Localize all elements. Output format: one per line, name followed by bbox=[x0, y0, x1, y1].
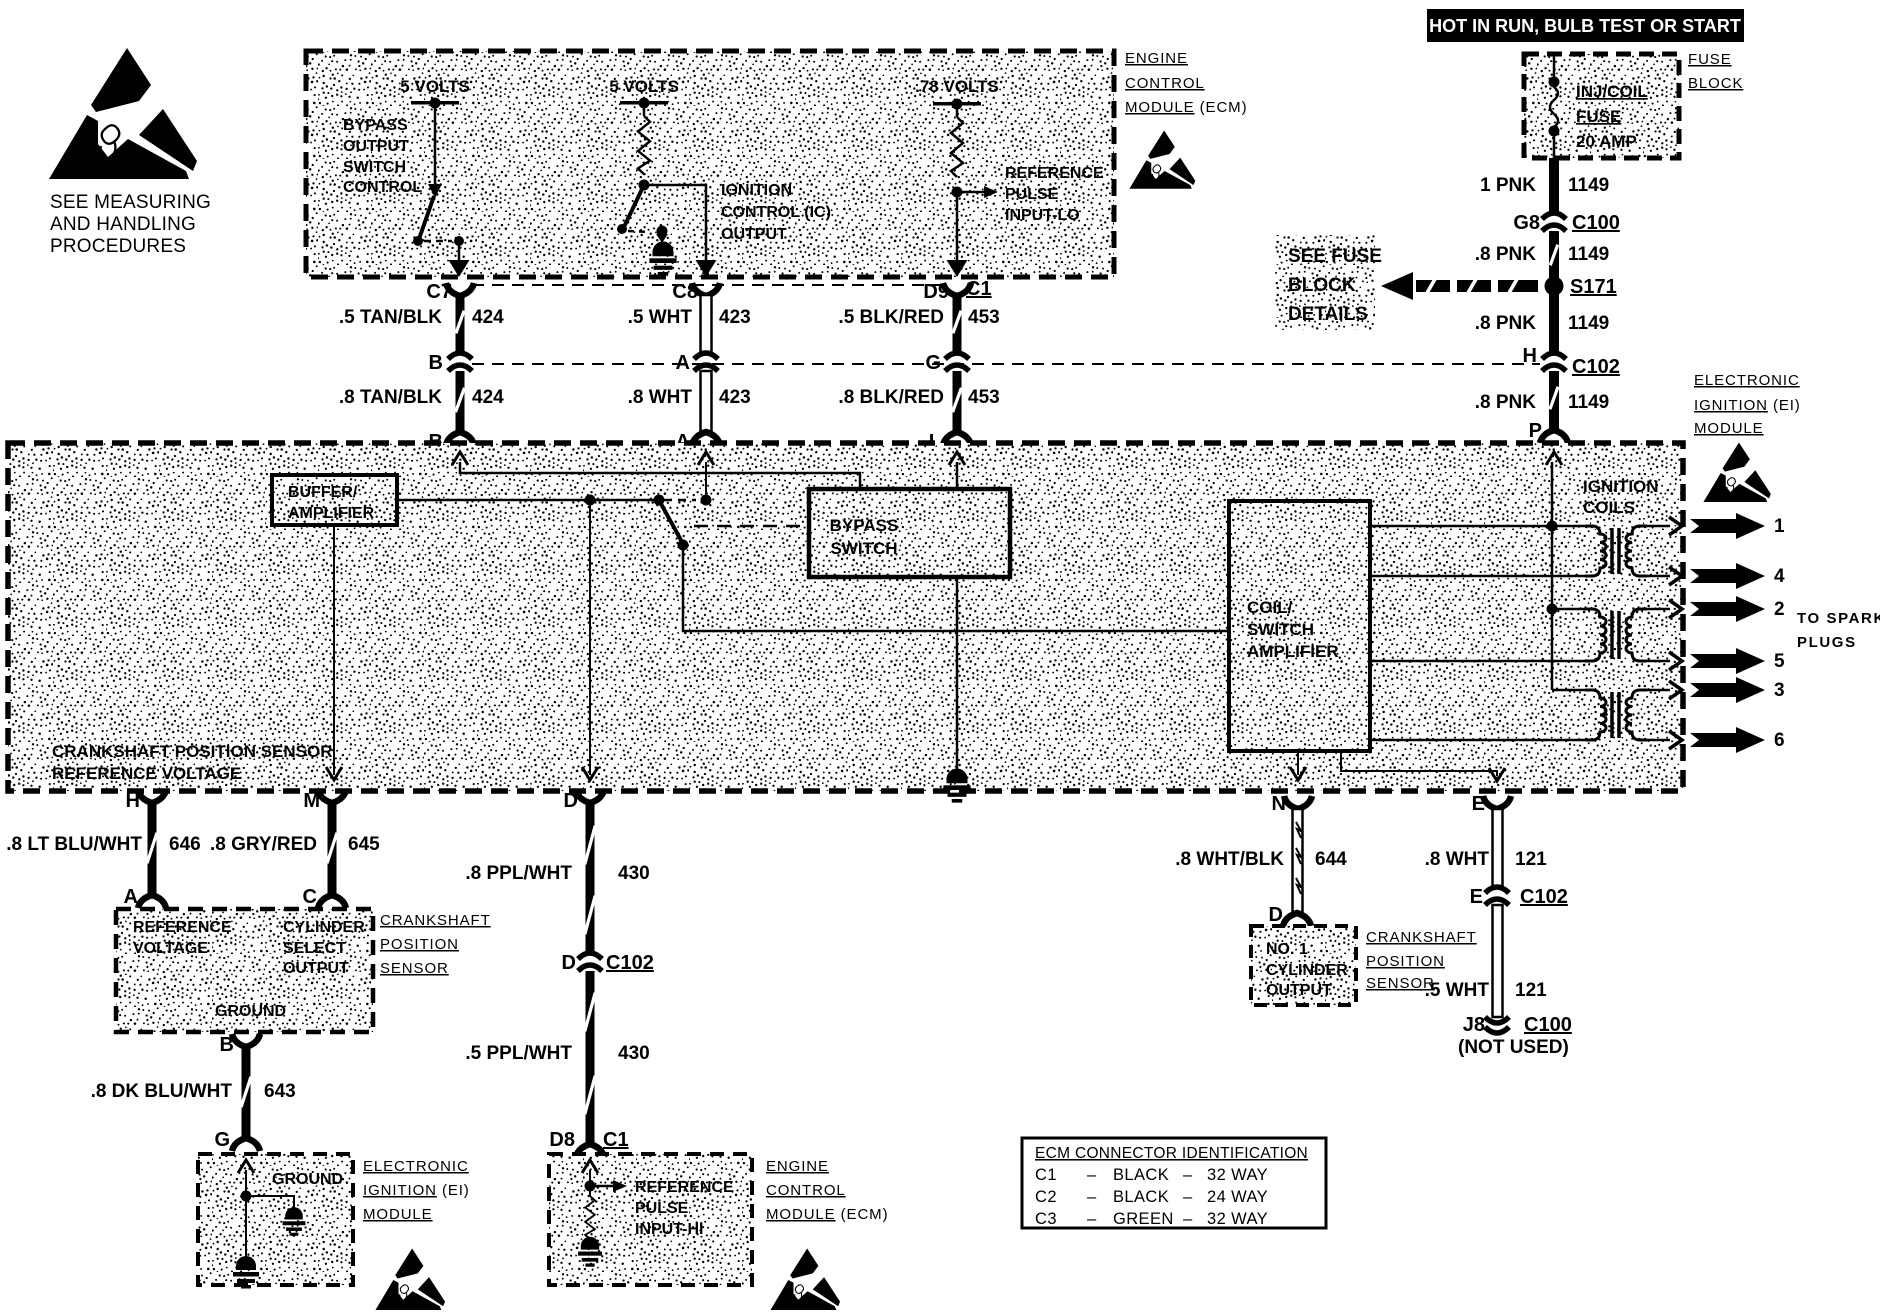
svg-text:C100: C100 bbox=[1524, 1014, 1572, 1036]
connector G C102 bbox=[945, 353, 969, 371]
svg-text:5 VOLTS: 5 VOLTS bbox=[400, 77, 470, 96]
svg-text:BUFFER/: BUFFER/ bbox=[288, 484, 358, 501]
svg-text:.5 WHT: .5 WHT bbox=[1425, 980, 1490, 1001]
svg-text:.8 DK BLU/WHT: .8 DK BLU/WHT bbox=[91, 1081, 233, 1102]
svg-text:G8: G8 bbox=[1513, 212, 1540, 234]
wire 424 .8 TAN/BLK bbox=[454, 371, 466, 431]
ignition control switch blade bbox=[617, 187, 668, 246]
wire 424 .5 TAN/BLK bbox=[454, 295, 465, 352]
wire 121 .5 WHT (white wire) bbox=[1493, 905, 1503, 1017]
resistor (ref pulse divider) bbox=[956, 104, 959, 117]
svg-text:B: B bbox=[220, 1034, 234, 1056]
svg-text:POSITION: POSITION bbox=[380, 936, 459, 953]
svg-text:32 WAY: 32 WAY bbox=[1207, 1210, 1268, 1228]
svg-text:453: 453 bbox=[968, 387, 1000, 408]
svg-text:ENGINE: ENGINE bbox=[766, 1158, 829, 1175]
svg-text:OUTPUT: OUTPUT bbox=[1266, 982, 1332, 999]
svg-text:INPUT-HI: INPUT-HI bbox=[635, 1221, 703, 1238]
svg-text:.5 WHT: .5 WHT bbox=[628, 307, 693, 328]
label ELECTRONIC IGNITION (EI) MODULE bbox=[363, 1158, 470, 1223]
svg-text:2: 2 bbox=[1774, 599, 1785, 620]
terminal J8 C100 (not used) bbox=[1485, 1017, 1509, 1033]
node coil feed junction 1 bbox=[1547, 521, 1558, 532]
svg-text:REFERENCE VOLTAGE: REFERENCE VOLTAGE bbox=[52, 764, 241, 783]
crankshaft position sensor box bbox=[116, 909, 373, 1032]
entry arrow B bbox=[452, 452, 468, 465]
svg-text:VOLTAGE: VOLTAGE bbox=[133, 940, 208, 957]
svg-text:E: E bbox=[1470, 886, 1483, 908]
svg-text:C1: C1 bbox=[966, 278, 992, 300]
wire 645 .8 GRY/RED bbox=[326, 803, 339, 894]
svg-text:CYLINDER: CYLINDER bbox=[1266, 962, 1348, 979]
svg-text:6: 6 bbox=[1774, 730, 1785, 751]
svg-text:BYPASS: BYPASS bbox=[830, 516, 899, 535]
svg-text:423: 423 bbox=[719, 387, 751, 408]
wire 453 .8 BLK/RED bbox=[951, 371, 963, 431]
terminal C (CKP sensor) bbox=[318, 895, 346, 908]
svg-text:PULSE: PULSE bbox=[635, 1200, 689, 1217]
node D junction bbox=[585, 495, 596, 506]
svg-text:453: 453 bbox=[968, 307, 1000, 328]
ECM connector identification table bbox=[1022, 1138, 1326, 1228]
svg-text:SWITCH: SWITCH bbox=[830, 539, 897, 558]
wire: branch to second ground bbox=[246, 1196, 294, 1212]
svg-text:REFERENCE: REFERENCE bbox=[1005, 165, 1104, 182]
note text bbox=[50, 192, 211, 257]
label FUSE BLOCK bbox=[1688, 51, 1743, 92]
node 5 VOLTS (bypass circuit) bbox=[400, 77, 470, 109]
no.1 cylinder output box bbox=[1251, 926, 1356, 1005]
connector face line C1 (ECM) bbox=[472, 284, 952, 286]
svg-text:–: – bbox=[1087, 1210, 1097, 1228]
svg-text:ELECTRONIC: ELECTRONIC bbox=[363, 1158, 469, 1175]
svg-text:BLACK: BLACK bbox=[1113, 1188, 1169, 1206]
arrow to REFERENCE PULSE INPUT-LO bbox=[957, 186, 998, 198]
svg-text:E: E bbox=[1472, 793, 1485, 815]
svg-text:–: – bbox=[1183, 1188, 1193, 1206]
labels inside CKP sensor bbox=[133, 919, 365, 1020]
exit terminals H M D at bottom edge bbox=[138, 790, 166, 803]
svg-text:GROUND: GROUND bbox=[215, 1003, 286, 1020]
svg-text:20 AMP: 20 AMP bbox=[1576, 132, 1637, 151]
label CRANKSHAFT POSITION SENSOR REFERENCE VOLTAGE bbox=[52, 742, 333, 783]
svg-text:P: P bbox=[1529, 420, 1542, 442]
svg-text:1149: 1149 bbox=[1568, 175, 1609, 196]
wire: buffer to M output bbox=[333, 525, 335, 775]
splice S171 bbox=[1545, 277, 1564, 296]
svg-text:REFERENCE: REFERENCE bbox=[635, 1179, 734, 1196]
resistor (ref-hi) bbox=[585, 1196, 595, 1239]
svg-text:.8 WHT: .8 WHT bbox=[628, 387, 693, 408]
label IGNITION CONTROL (IC) OUTPUT bbox=[721, 182, 831, 243]
connector A C102 bbox=[694, 353, 718, 371]
wire 423 .5 WHT (white wire) bbox=[701, 295, 712, 352]
node coil feed junction 2 bbox=[1547, 604, 1558, 615]
wire: G to grounds bbox=[245, 1170, 247, 1262]
svg-text:N: N bbox=[1272, 793, 1286, 815]
node ref-hi junction bbox=[585, 1181, 596, 1192]
banner HOT IN RUN, BULB TEST OR START bbox=[1427, 9, 1744, 42]
svg-text:.8 PNK: .8 PNK bbox=[1475, 313, 1537, 334]
svg-text:C1: C1 bbox=[1035, 1166, 1057, 1184]
svg-text:430: 430 bbox=[618, 1043, 650, 1064]
svg-text:BYPASS: BYPASS bbox=[343, 117, 408, 134]
svg-text:C8: C8 bbox=[672, 281, 698, 303]
svg-text:C102: C102 bbox=[1520, 886, 1568, 908]
svg-text:BLACK: BLACK bbox=[1113, 1166, 1169, 1184]
svg-text:.8 GRY/RED: .8 GRY/RED bbox=[210, 834, 317, 855]
label TO SPARK PLUGS bbox=[1797, 610, 1880, 651]
terminal C7 bbox=[446, 283, 474, 296]
wire 644 .8 WHT/BLK (white w/ black tracer) bbox=[1293, 809, 1303, 912]
svg-text:REFERENCE: REFERENCE bbox=[133, 919, 232, 936]
svg-text:643: 643 bbox=[264, 1081, 296, 1102]
svg-text:121: 121 bbox=[1515, 849, 1547, 870]
svg-text:OUTPUT: OUTPUT bbox=[721, 226, 787, 243]
entry arrow D8 bbox=[582, 1160, 598, 1173]
label ELECTRONIC IGNITION (EI) MODULE bbox=[1694, 372, 1801, 437]
labels REFERENCE PULSE INPUT-HI bbox=[635, 1179, 734, 1238]
ignition coil 2-5 bbox=[1585, 609, 1670, 661]
entry arrow P bbox=[1546, 452, 1562, 465]
svg-text:SWITCH: SWITCH bbox=[343, 159, 406, 176]
ESD symbol: see measuring and handling bbox=[49, 48, 197, 179]
svg-text:CONTROL: CONTROL bbox=[343, 179, 422, 196]
svg-text:.8 PNK: .8 PNK bbox=[1475, 244, 1537, 265]
svg-text:INJ/COIL: INJ/COIL bbox=[1576, 82, 1648, 101]
entry arrow G bbox=[238, 1160, 254, 1173]
ground (EI internal) bbox=[943, 769, 970, 803]
terminal A (EI module) bbox=[692, 432, 720, 445]
wire 453 .5 BLK/RED bbox=[951, 295, 962, 352]
bypass switch box bbox=[809, 489, 1010, 577]
svg-text:.8 WHT: .8 WHT bbox=[1425, 849, 1490, 870]
label ENGINE CONTROL MODULE (ECM) bbox=[1125, 50, 1247, 116]
svg-text:.8 PNK: .8 PNK bbox=[1475, 392, 1537, 413]
svg-text:ECM CONNECTOR IDENTIFICATION: ECM CONNECTOR IDENTIFICATION bbox=[1035, 1145, 1308, 1162]
svg-text:H: H bbox=[126, 790, 140, 812]
svg-text:AMPLIFIER: AMPLIFIER bbox=[1247, 642, 1339, 661]
svg-text:–: – bbox=[1087, 1188, 1097, 1206]
svg-text:423: 423 bbox=[719, 307, 751, 328]
svg-text:C102: C102 bbox=[606, 952, 654, 974]
wire 430 .8 PPL/WHT bbox=[583, 803, 596, 955]
terminal B (CKP sensor bottom) bbox=[232, 1034, 260, 1047]
svg-text:C102: C102 bbox=[1572, 356, 1620, 378]
wire: P down to coil feed bbox=[1551, 462, 1554, 690]
svg-text:(NOT USED): (NOT USED) bbox=[1458, 1037, 1569, 1058]
terminal G (EI module ground) bbox=[232, 1138, 260, 1151]
bypass output switch (ECM) bbox=[413, 184, 464, 246]
resistor (IC pull-up) bbox=[643, 103, 646, 116]
ground (main) bbox=[233, 1256, 259, 1289]
svg-text:GROUND: GROUND bbox=[272, 1171, 343, 1188]
svg-text:CONTROL: CONTROL bbox=[766, 1182, 846, 1199]
connector face line C102 bbox=[472, 363, 1540, 365]
svg-text:.8 LT BLU/WHT: .8 LT BLU/WHT bbox=[6, 834, 142, 855]
terminal D8 / C1 (ECM) bbox=[576, 1144, 604, 1157]
mechanical link to bypass switch bbox=[694, 525, 806, 528]
svg-text:C100: C100 bbox=[1572, 212, 1620, 234]
svg-text:MODULE (ECM): MODULE (ECM) bbox=[1125, 99, 1247, 116]
EI module ground box bbox=[198, 1154, 353, 1285]
terminal D (no.1 cylinder) bbox=[1283, 913, 1311, 926]
fuse block box bbox=[1524, 54, 1679, 158]
wire: blade to coil/switch amplifier bbox=[683, 548, 1229, 631]
svg-text:.5 BLK/RED: .5 BLK/RED bbox=[838, 307, 944, 328]
svg-text:MODULE: MODULE bbox=[363, 1206, 433, 1223]
wire: L to internal ground bbox=[956, 462, 959, 775]
wire 121 .8 WHT (white wire) bbox=[1493, 809, 1503, 886]
svg-text:SEE FUSE: SEE FUSE bbox=[1288, 246, 1382, 267]
wire: D8 to divider bbox=[589, 1170, 591, 1196]
dashed arrow to fuse block details bbox=[1381, 272, 1538, 300]
svg-text:D9: D9 bbox=[923, 281, 949, 303]
label REFERENCE PULSE INPUT-LO bbox=[1005, 165, 1104, 224]
svg-text:C2: C2 bbox=[1035, 1188, 1057, 1206]
svg-text:CONTROL: CONTROL bbox=[1125, 75, 1205, 92]
ESD symbol (bottom left) bbox=[375, 1248, 445, 1310]
svg-text:C: C bbox=[303, 886, 317, 908]
svg-text:.78 VOLTS: .78 VOLTS bbox=[915, 77, 999, 96]
label INJ/COIL FUSE 20 AMP bbox=[1576, 82, 1648, 151]
node 5 VOLTS (IC circuit) bbox=[609, 77, 679, 109]
ground (IC contact) bbox=[649, 242, 676, 276]
wire 1149 .8 PNK (below splice) bbox=[1549, 294, 1559, 353]
svg-text:SELECT: SELECT bbox=[283, 940, 346, 957]
svg-text:PROCEDURES: PROCEDURES bbox=[50, 236, 186, 257]
svg-text:COILS: COILS bbox=[1583, 498, 1635, 517]
ESD symbol (bottom middle) bbox=[770, 1248, 840, 1310]
svg-text:NO. 1: NO. 1 bbox=[1266, 941, 1308, 958]
bypass switch pivot bbox=[654, 495, 665, 506]
svg-text:.8 PPL/WHT: .8 PPL/WHT bbox=[465, 863, 572, 884]
svg-text:3: 3 bbox=[1774, 680, 1785, 701]
coil/switch amplifier box bbox=[1229, 501, 1370, 751]
ground (ref-hi) bbox=[578, 1237, 602, 1267]
svg-text:FUSE: FUSE bbox=[1688, 51, 1732, 68]
svg-text:PULSE: PULSE bbox=[1005, 186, 1059, 203]
wire 430 .5 PPL/WHT bbox=[583, 971, 596, 1143]
connector E C102 bbox=[1485, 887, 1509, 905]
ignition coil 3-6 bbox=[1585, 690, 1670, 740]
svg-text:.5 PPL/WHT: .5 PPL/WHT bbox=[465, 1043, 572, 1064]
svg-text:5 VOLTS: 5 VOLTS bbox=[609, 77, 679, 96]
svg-text:644: 644 bbox=[1315, 849, 1347, 870]
spark plug outputs bbox=[1669, 513, 1785, 753]
svg-text:CYLINDER: CYLINDER bbox=[283, 919, 365, 936]
svg-text:SWITCH: SWITCH bbox=[1247, 620, 1314, 639]
wire: D junction to D output bbox=[589, 500, 591, 775]
entry arrow L bbox=[949, 452, 965, 465]
svg-text:CRANKSHAFT: CRANKSHAFT bbox=[1366, 929, 1477, 946]
wire: B to bypass switch box bbox=[460, 462, 860, 489]
label CRANKSHAFT POSITION SENSOR bbox=[380, 912, 491, 977]
svg-text:M: M bbox=[303, 790, 320, 812]
wire 1149 .8 PNK bbox=[1549, 231, 1560, 279]
svg-text:D: D bbox=[564, 790, 578, 812]
svg-text:BLOCK: BLOCK bbox=[1288, 275, 1356, 296]
svg-text:IGNITION: IGNITION bbox=[721, 182, 792, 199]
svg-text:MODULE (ECM): MODULE (ECM) bbox=[766, 1206, 888, 1223]
terminal C8 bbox=[692, 283, 720, 296]
node ref-pulse junction bbox=[952, 187, 963, 198]
svg-text:SEE MEASURING: SEE MEASURING bbox=[50, 192, 211, 213]
svg-text:PLUGS: PLUGS bbox=[1797, 634, 1857, 651]
svg-text:646: 646 bbox=[169, 834, 201, 855]
svg-text:C7: C7 bbox=[426, 281, 452, 303]
wire 1149 1 PNK bbox=[1549, 158, 1559, 215]
connector B C102 bbox=[448, 353, 472, 371]
terminal D9 / C1 bbox=[943, 283, 971, 296]
svg-text:424: 424 bbox=[472, 307, 504, 328]
svg-text:A: A bbox=[676, 352, 690, 374]
svg-text:AMPLIFIER: AMPLIFIER bbox=[288, 505, 375, 522]
ignition coil 1-4 bbox=[1585, 526, 1670, 576]
svg-text:B: B bbox=[429, 352, 443, 374]
connector H C102 bbox=[1542, 353, 1566, 371]
svg-text:CRANKSHAFT: CRANKSHAFT bbox=[380, 912, 491, 929]
svg-text:430: 430 bbox=[618, 863, 650, 884]
svg-text:FUSE: FUSE bbox=[1576, 107, 1621, 126]
svg-text:–: – bbox=[1183, 1210, 1193, 1228]
ESD symbol near EI label bbox=[1703, 442, 1770, 502]
svg-text:G: G bbox=[925, 352, 941, 374]
wire 423 .8 WHT (white wire) bbox=[701, 371, 712, 431]
svg-text:A: A bbox=[124, 886, 138, 908]
svg-text:–: – bbox=[1183, 1166, 1193, 1184]
svg-text:.5 TAN/BLK: .5 TAN/BLK bbox=[339, 307, 442, 328]
svg-text:645: 645 bbox=[348, 834, 380, 855]
label CRANKSHAFT POSITION SENSOR (right) bbox=[1366, 929, 1477, 992]
switch blade bbox=[660, 502, 689, 551]
svg-text:J8: J8 bbox=[1463, 1014, 1485, 1036]
ECM reference pulse box bbox=[549, 1154, 752, 1285]
svg-text:DETAILS: DETAILS bbox=[1288, 304, 1368, 325]
wire: A down to switch contact bbox=[705, 462, 707, 497]
svg-text:INPUT-LO: INPUT-LO bbox=[1005, 207, 1080, 224]
engine control module box bbox=[306, 51, 1114, 277]
svg-text:D: D bbox=[562, 952, 576, 974]
svg-text:.8 BLK/RED: .8 BLK/RED bbox=[838, 387, 944, 408]
wire: 5V down to switch bbox=[434, 103, 437, 188]
svg-text:1149: 1149 bbox=[1568, 244, 1609, 265]
electronic ignition module box bbox=[8, 443, 1683, 791]
svg-text:IGNITION: IGNITION bbox=[1583, 477, 1659, 496]
wire: amp to E output bbox=[1341, 751, 1497, 776]
svg-text:S171: S171 bbox=[1570, 276, 1617, 298]
svg-text:ELECTRONIC: ELECTRONIC bbox=[1694, 372, 1800, 389]
svg-text:CONTROL (IC): CONTROL (IC) bbox=[721, 204, 831, 221]
svg-text:C1: C1 bbox=[603, 1129, 629, 1151]
ground (branch) bbox=[283, 1207, 306, 1236]
svg-text:AND HANDLING: AND HANDLING bbox=[50, 214, 196, 235]
svg-text:1149: 1149 bbox=[1568, 313, 1609, 334]
svg-text:ENGINE: ENGINE bbox=[1125, 50, 1188, 67]
svg-text:SENSOR: SENSOR bbox=[380, 960, 449, 977]
svg-text:424: 424 bbox=[472, 387, 504, 408]
svg-text:–: – bbox=[1087, 1166, 1097, 1184]
wire 646 .8 LT BLU/WHT bbox=[146, 803, 159, 894]
svg-text:HOT IN RUN, BULB TEST OR START: HOT IN RUN, BULB TEST OR START bbox=[1429, 16, 1741, 36]
svg-text:.8 TAN/BLK: .8 TAN/BLK bbox=[339, 387, 442, 408]
svg-text:121: 121 bbox=[1515, 980, 1547, 1001]
svg-text:IGNITION (EI): IGNITION (EI) bbox=[1694, 397, 1801, 414]
svg-text:POSITION: POSITION bbox=[1366, 953, 1445, 970]
svg-text:1: 1 bbox=[1774, 516, 1785, 537]
svg-text:BLOCK: BLOCK bbox=[1688, 75, 1743, 92]
node IC junction bbox=[639, 180, 650, 191]
switch contact under A bbox=[701, 495, 712, 506]
svg-text:H: H bbox=[1523, 345, 1537, 367]
node ground junction bbox=[241, 1191, 252, 1202]
wire 643 .8 DK BLU/WHT bbox=[240, 1047, 253, 1137]
arrow to REFERENCE PULSE INPUT-HI bbox=[590, 1180, 627, 1192]
entry arrow A bbox=[698, 452, 714, 465]
svg-text:IGNITION (EI): IGNITION (EI) bbox=[363, 1182, 470, 1199]
terminal B (EI module) bbox=[446, 432, 474, 445]
svg-text:OUTPUT: OUTPUT bbox=[283, 960, 349, 977]
wire amp outputs to coils bbox=[1370, 525, 1586, 528]
svg-text:5: 5 bbox=[1774, 651, 1785, 672]
wire: IC junction to C8 exit bbox=[644, 185, 706, 268]
label SEE FUSE BLOCK DETAILS bbox=[1275, 235, 1382, 330]
wire to C7 exit bbox=[458, 241, 461, 268]
label ENGINE CONTROL MODULE (ECM) bbox=[766, 1158, 888, 1223]
svg-text:C3: C3 bbox=[1035, 1210, 1057, 1228]
svg-text:MODULE: MODULE bbox=[1694, 420, 1764, 437]
terminal P (EI module) bbox=[1540, 430, 1568, 443]
label IGNITION COILS bbox=[1583, 477, 1659, 517]
svg-text:OUTPUT: OUTPUT bbox=[343, 138, 409, 155]
svg-text:CRANKSHAFT POSITION SENSOR: CRANKSHAFT POSITION SENSOR bbox=[52, 742, 333, 761]
svg-text:GREEN: GREEN bbox=[1113, 1210, 1174, 1228]
svg-text:1 PNK: 1 PNK bbox=[1480, 175, 1536, 196]
svg-text:G: G bbox=[214, 1129, 230, 1151]
terminal A (CKP sensor) bbox=[138, 895, 166, 908]
svg-text:TO SPARK: TO SPARK bbox=[1797, 610, 1880, 627]
svg-text:32 WAY: 32 WAY bbox=[1207, 1166, 1268, 1184]
fuse INJ/COIL 20A bbox=[1549, 54, 1560, 158]
ESD symbol near ECM label bbox=[1129, 130, 1195, 188]
terminal L (EI module) bbox=[943, 432, 971, 445]
svg-text:24 WAY: 24 WAY bbox=[1207, 1188, 1268, 1206]
node .78 VOLTS bbox=[915, 77, 999, 110]
wire 1149 .8 PNK (to P) bbox=[1548, 371, 1559, 429]
svg-text:4: 4 bbox=[1774, 566, 1785, 587]
svg-text:D: D bbox=[1269, 904, 1283, 926]
wire: buffer output to switch bbox=[397, 499, 659, 502]
svg-text:COIL/: COIL/ bbox=[1247, 598, 1293, 617]
wire: amp to N output bbox=[1297, 751, 1299, 775]
svg-text:.8 WHT/BLK: .8 WHT/BLK bbox=[1175, 849, 1284, 870]
wire: junction to D9 exit bbox=[956, 192, 959, 268]
connector D C102 bbox=[578, 953, 602, 971]
connector G8 C100 bbox=[1542, 213, 1566, 231]
label BYPASS OUTPUT SWITCH CONTROL bbox=[343, 117, 422, 196]
svg-text:1149: 1149 bbox=[1568, 392, 1609, 413]
svg-text:D8: D8 bbox=[549, 1129, 575, 1151]
buffer/amplifier box bbox=[272, 475, 397, 525]
